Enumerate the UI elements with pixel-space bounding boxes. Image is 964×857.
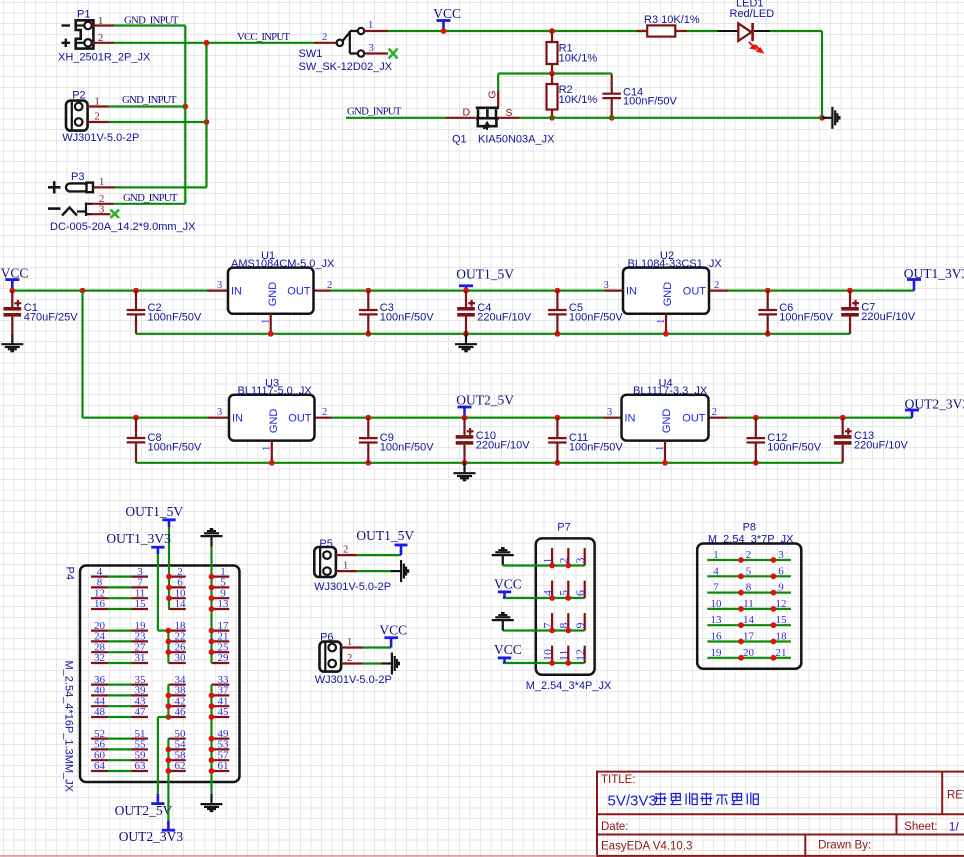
svg-text:XH_2501R_2P_JX: XH_2501R_2P_JX	[58, 52, 151, 64]
svg-text:1: 1	[713, 549, 719, 561]
svg-text:IN: IN	[625, 413, 636, 425]
svg-text:M_2.54_4*16P_1.3MM_JX: M_2.54_4*16P_1.3MM_JX	[63, 661, 75, 793]
svg-text:1: 1	[99, 177, 104, 188]
svg-text:G: G	[486, 90, 498, 98]
svg-text:31: 31	[135, 652, 146, 664]
svg-text:100nF/50V: 100nF/50V	[767, 442, 821, 454]
svg-text:15: 15	[135, 598, 147, 610]
svg-text:2: 2	[99, 194, 104, 205]
svg-text:P7: P7	[557, 521, 570, 533]
svg-text:VCC: VCC	[379, 622, 407, 637]
svg-text:P1: P1	[77, 9, 90, 21]
svg-text:3: 3	[778, 549, 784, 561]
svg-text:OUT1_5V: OUT1_5V	[356, 528, 414, 543]
svg-text:GND_INPUT: GND_INPUT	[122, 94, 177, 106]
svg-text:Q1: Q1	[452, 134, 467, 146]
svg-text:D: D	[463, 107, 471, 119]
svg-text:Drawn By:: Drawn By:	[818, 840, 871, 852]
svg-text:2: 2	[714, 280, 719, 291]
svg-text:P3: P3	[71, 171, 84, 183]
svg-text:45: 45	[218, 706, 230, 718]
svg-text:7: 7	[540, 623, 554, 629]
svg-text:17: 17	[743, 631, 755, 643]
svg-text:2: 2	[327, 280, 332, 291]
svg-text:10: 10	[540, 649, 554, 661]
svg-text:REV: REV	[947, 790, 964, 802]
svg-text:2: 2	[98, 33, 103, 44]
svg-text:P5: P5	[319, 538, 332, 550]
svg-text:2: 2	[347, 653, 352, 664]
svg-text:100nF/50V: 100nF/50V	[779, 312, 833, 324]
svg-text:DC-005-20A_14.2*9.0mm_JX: DC-005-20A_14.2*9.0mm_JX	[50, 221, 196, 233]
svg-text:5: 5	[746, 565, 752, 577]
svg-text:GND: GND	[661, 409, 673, 434]
svg-text:30: 30	[175, 652, 187, 664]
svg-text:2: 2	[95, 111, 100, 122]
svg-text:220uF/10V: 220uF/10V	[477, 312, 531, 324]
svg-text:21: 21	[776, 647, 787, 659]
svg-text:GND: GND	[268, 409, 280, 434]
svg-text:BL1117-3.3_JX: BL1117-3.3_JX	[633, 385, 708, 397]
svg-text:2: 2	[322, 32, 327, 43]
svg-text:16: 16	[711, 631, 723, 643]
svg-text:VCC: VCC	[494, 577, 522, 592]
svg-text:KIA50N03A_JX: KIA50N03A_JX	[478, 134, 555, 146]
svg-text:GND_INPUT: GND_INPUT	[123, 192, 178, 204]
svg-text:OUT: OUT	[287, 286, 311, 298]
svg-text:TITLE:: TITLE:	[601, 774, 636, 786]
svg-text:1/: 1/	[949, 820, 960, 834]
svg-text:2: 2	[343, 545, 348, 556]
svg-text:OUT1_5V: OUT1_5V	[456, 266, 514, 281]
svg-text:10K/1%: 10K/1%	[559, 52, 598, 64]
svg-text:OUT2_5V: OUT2_5V	[456, 392, 514, 407]
svg-text:5V/3V3: 5V/3V3	[608, 792, 657, 809]
svg-text:61: 61	[218, 760, 229, 772]
svg-text:63: 63	[135, 760, 147, 772]
svg-text:3: 3	[573, 558, 587, 564]
svg-text:S: S	[506, 107, 513, 119]
svg-text:100nF/50V: 100nF/50V	[623, 95, 677, 107]
svg-text:1: 1	[343, 561, 348, 572]
svg-text:M_2.54_3*7P_JX: M_2.54_3*7P_JX	[708, 533, 794, 545]
svg-text:100nF/50V: 100nF/50V	[380, 442, 434, 454]
svg-text:220uF/10V: 220uF/10V	[861, 311, 915, 323]
svg-text:OUT: OUT	[683, 286, 707, 298]
svg-text:IN: IN	[231, 286, 242, 298]
svg-text:BL1117-5.0_JX: BL1117-5.0_JX	[238, 385, 313, 397]
svg-text:VCC: VCC	[494, 642, 522, 657]
svg-text:6: 6	[778, 565, 784, 577]
svg-text:GND: GND	[267, 282, 279, 307]
svg-text:100nF/50V: 100nF/50V	[380, 312, 434, 324]
svg-text:11: 11	[743, 598, 754, 610]
svg-text:BL1084-33CS1_JX: BL1084-33CS1_JX	[628, 258, 723, 270]
svg-text:19: 19	[711, 647, 723, 659]
svg-text:4: 4	[540, 590, 554, 596]
svg-text:5: 5	[557, 590, 571, 596]
svg-text:100nF/50V: 100nF/50V	[148, 312, 202, 324]
svg-text:13: 13	[711, 614, 723, 626]
svg-text:VCC_INPUT: VCC_INPUT	[237, 31, 290, 43]
svg-text:29: 29	[218, 652, 230, 664]
svg-text:15: 15	[776, 614, 788, 626]
svg-text:P2: P2	[72, 90, 85, 102]
svg-text:1: 1	[347, 637, 352, 648]
svg-text:P8: P8	[743, 521, 756, 533]
svg-text:470uF/25V: 470uF/25V	[24, 312, 78, 324]
svg-text:OUT2_5V: OUT2_5V	[115, 803, 173, 818]
svg-text:3: 3	[607, 407, 612, 418]
svg-text:WJ301V-5.0-2P: WJ301V-5.0-2P	[314, 581, 391, 593]
svg-text:IN: IN	[232, 413, 243, 425]
svg-text:220uF/10V: 220uF/10V	[854, 440, 908, 452]
svg-text:1: 1	[98, 16, 103, 27]
svg-text:100nF/50V: 100nF/50V	[569, 312, 623, 324]
svg-text:100nF/50V: 100nF/50V	[569, 442, 623, 454]
svg-text:P6: P6	[320, 632, 333, 644]
svg-text:47: 47	[135, 706, 147, 718]
svg-text:10: 10	[711, 598, 723, 610]
svg-text:3: 3	[99, 204, 104, 215]
svg-text:32: 32	[94, 652, 105, 664]
svg-text:GND_INPUT: GND_INPUT	[347, 106, 402, 118]
svg-text:3: 3	[217, 280, 222, 291]
svg-text:OUT: OUT	[288, 413, 312, 425]
svg-text:1: 1	[368, 20, 373, 31]
svg-text:8: 8	[557, 623, 571, 629]
svg-text:EasyEDA V4.10.3: EasyEDA V4.10.3	[601, 840, 692, 852]
svg-text:7: 7	[713, 582, 719, 594]
svg-text:AMS1084CM-5.0_JX: AMS1084CM-5.0_JX	[231, 258, 335, 270]
svg-text:2: 2	[557, 558, 571, 564]
svg-text:OUT2_3V3: OUT2_3V3	[119, 829, 184, 844]
svg-text:SW1: SW1	[299, 48, 323, 60]
svg-text:46: 46	[175, 706, 187, 718]
svg-text:18: 18	[776, 631, 788, 643]
svg-text:20: 20	[743, 647, 755, 659]
svg-text:3: 3	[217, 407, 222, 418]
svg-text:Sheet:: Sheet:	[904, 821, 937, 833]
svg-text:VCC: VCC	[433, 6, 461, 21]
svg-text:10K/1%: 10K/1%	[559, 94, 598, 106]
svg-text:WJ301V-5.0-2P: WJ301V-5.0-2P	[315, 674, 392, 686]
svg-text:62: 62	[175, 760, 186, 772]
svg-text:3: 3	[369, 43, 374, 54]
svg-text:9: 9	[573, 623, 587, 629]
svg-text:12: 12	[776, 598, 787, 610]
svg-text:12: 12	[573, 649, 587, 661]
svg-text:2: 2	[746, 549, 752, 561]
svg-text:14: 14	[175, 598, 187, 610]
svg-text:13: 13	[218, 598, 230, 610]
svg-text:GND: GND	[662, 282, 674, 307]
svg-text:OUT1_3V3: OUT1_3V3	[106, 531, 171, 546]
svg-text:14: 14	[743, 614, 755, 626]
svg-text:220uF/10V: 220uF/10V	[476, 440, 530, 452]
svg-text:SW_SK-12D02_JX: SW_SK-12D02_JX	[299, 61, 393, 73]
svg-text:8: 8	[746, 582, 752, 594]
svg-text:OUT: OUT	[682, 413, 706, 425]
svg-text:Date:: Date:	[601, 821, 629, 833]
svg-text:48: 48	[94, 706, 106, 718]
svg-text:2: 2	[322, 407, 327, 418]
svg-text:R3 10K/1%: R3 10K/1%	[644, 14, 700, 26]
svg-text:Red/LED: Red/LED	[730, 8, 775, 20]
svg-text:P4: P4	[64, 567, 76, 580]
svg-text:4: 4	[713, 565, 719, 577]
svg-text:WJ301V-5.0-2P: WJ301V-5.0-2P	[62, 132, 139, 144]
svg-text:3: 3	[604, 280, 609, 291]
svg-text:IN: IN	[626, 286, 637, 298]
svg-text:9: 9	[778, 582, 784, 594]
svg-text:64: 64	[94, 760, 106, 772]
svg-text:OUT1_5V: OUT1_5V	[125, 504, 183, 519]
svg-text:100nF/50V: 100nF/50V	[148, 442, 202, 454]
svg-text:16: 16	[94, 598, 106, 610]
svg-text:2: 2	[712, 407, 717, 418]
svg-text:6: 6	[573, 590, 587, 596]
svg-text:1: 1	[540, 558, 554, 564]
svg-text:M_2.54_3*4P_JX: M_2.54_3*4P_JX	[526, 680, 612, 692]
svg-text:11: 11	[557, 649, 571, 661]
svg-text:1: 1	[95, 96, 100, 107]
